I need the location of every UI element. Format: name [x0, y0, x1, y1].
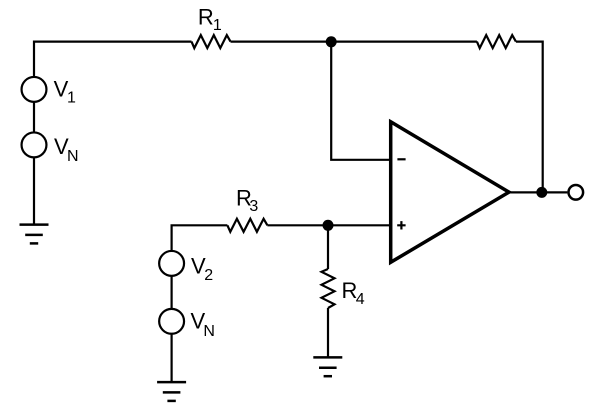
- ground (lower V2 branch): [157, 382, 186, 401]
- node junction at R1 output / inverting branch: [326, 36, 337, 47]
- svg-text:N: N: [203, 323, 215, 340]
- svg-text:1: 1: [213, 17, 222, 34]
- svg-text:N: N: [67, 148, 79, 165]
- wire junction to R4: [327, 225, 329, 269]
- svg-text:4: 4: [356, 291, 365, 308]
- resistor R3: [227, 219, 267, 232]
- ground (left branch): [20, 225, 49, 244]
- wire feedback resistor to output node (right side down): [516, 42, 543, 193]
- wire R3 to non-inverting input: [267, 224, 390, 226]
- wire V2 to VN (lower noise source): [171, 276, 173, 309]
- wire lower VN to ground: [171, 334, 173, 382]
- svg-text:1: 1: [67, 90, 76, 107]
- voltage source VN (lower noise source): [159, 309, 184, 334]
- resistor R1: [192, 35, 231, 48]
- op-amp U1: [391, 122, 509, 262]
- node junction at non-inverting input / R4: [323, 220, 334, 231]
- wire top-left: V1 top corner to R1: [34, 42, 192, 77]
- resistor R2 (feedback, unlabeled): [477, 35, 516, 48]
- resistor R4: [322, 269, 335, 308]
- wire VN to ground: [33, 157, 35, 224]
- node output junction: [536, 187, 547, 198]
- wire op-amp output: [509, 191, 567, 193]
- wire V1 to VN: [33, 102, 35, 133]
- wire R4 to ground: [327, 308, 329, 357]
- output terminal (open circle): [569, 185, 584, 200]
- voltage source V1: [22, 77, 47, 102]
- voltage source V2: [159, 251, 184, 276]
- svg-text:R: R: [198, 4, 214, 29]
- svg-text:3: 3: [249, 198, 258, 215]
- wire V2 top corner to R3: [172, 225, 228, 251]
- op-amp inverting input minus sign: [397, 158, 405, 160]
- ground (R4): [313, 357, 342, 376]
- svg-text:2: 2: [204, 267, 213, 284]
- op-amp non-inverting input plus sign: [397, 221, 405, 229]
- wire junction to inverting input: [331, 42, 391, 160]
- voltage source VN (left noise source): [22, 132, 47, 157]
- wire R1 to feedback resistor: [231, 40, 477, 42]
